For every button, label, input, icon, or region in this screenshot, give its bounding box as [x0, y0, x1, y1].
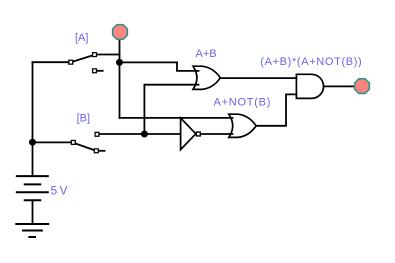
svg-text:(A+B)*(A+NOT(B)): (A+B)*(A+NOT(B)): [260, 56, 362, 68]
svg-text:A+B: A+B: [196, 48, 217, 60]
svg-text:A+NOT(B): A+NOT(B): [214, 96, 272, 108]
svg-text:5 V: 5 V: [51, 184, 68, 198]
svg-text:[A]: [A]: [75, 32, 88, 44]
svg-text:[B]: [B]: [77, 113, 90, 125]
